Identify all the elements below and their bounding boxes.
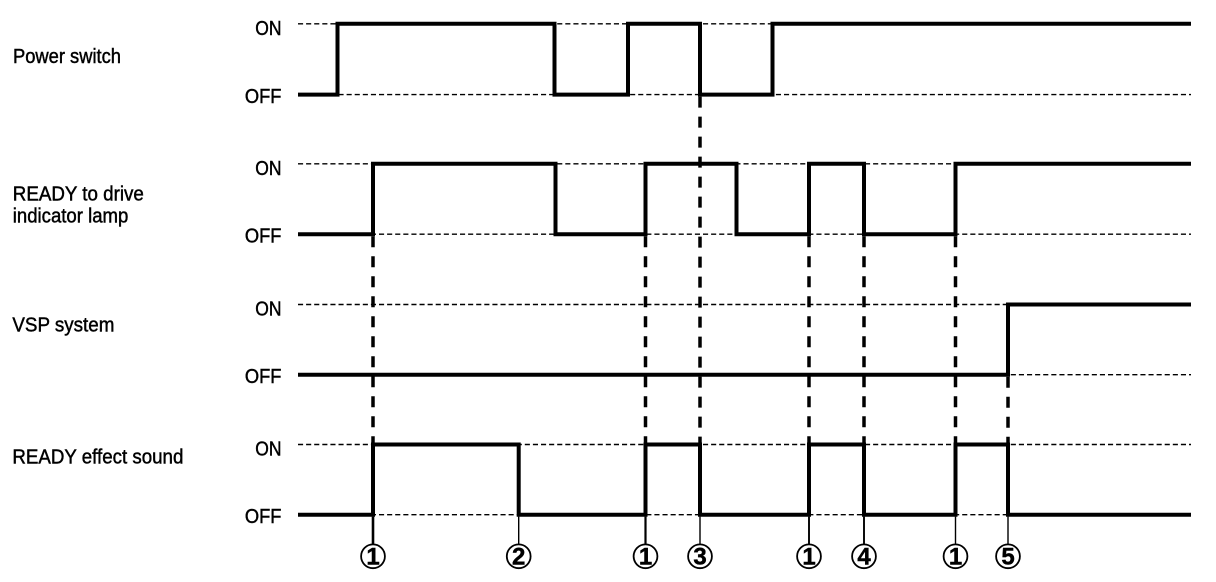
svg-text:VSP system: VSP system	[12, 315, 114, 337]
dashed guide ON level row4	[298, 444, 1191, 446]
wire leader to circle 2	[518, 517, 520, 544]
node marker 5	[996, 544, 1020, 571]
dashed timing line node 4	[862, 236, 866, 442]
node marker 2	[507, 544, 531, 571]
dashed timing line node 1a	[371, 236, 375, 442]
dashed guide OFF level row2	[298, 233, 1191, 235]
svg-text:ON: ON	[255, 299, 281, 321]
svg-text:ON: ON	[255, 439, 281, 461]
svg-text:OFF: OFF	[245, 225, 282, 247]
svg-text:READY to drive: READY to drive	[13, 184, 144, 206]
node marker 1 (first)	[361, 544, 385, 571]
svg-text:3: 3	[693, 544, 706, 571]
dashed guide ON level row3	[298, 304, 1191, 306]
svg-text:1: 1	[366, 544, 379, 571]
svg-text:2: 2	[512, 544, 525, 571]
wire leader to circle 3	[699, 517, 701, 544]
node marker 4	[852, 544, 876, 571]
wire leader to circle 5	[1007, 517, 1009, 544]
wire leader to circle 1b	[644, 517, 646, 544]
dashed timing line node 1d	[954, 236, 958, 442]
svg-text:4: 4	[857, 544, 871, 571]
dashed timing line node 3	[698, 97, 702, 443]
svg-text:1: 1	[949, 544, 962, 571]
dashed guide ON level row1	[298, 23, 1191, 25]
wire leader to circle 1d	[955, 517, 957, 544]
svg-text:ON: ON	[255, 18, 281, 40]
wire waveform VSP system	[298, 305, 1191, 375]
dashed timing line node 5	[1006, 377, 1010, 443]
dashed timing line node 1c	[807, 236, 811, 442]
svg-text:OFF: OFF	[245, 86, 282, 108]
dashed guide OFF level row3	[298, 374, 1191, 376]
dashed timing line node 1b	[644, 236, 648, 442]
svg-text:1: 1	[802, 544, 815, 571]
svg-text:OFF: OFF	[245, 366, 282, 388]
wire leader to circle 4	[863, 517, 865, 544]
svg-text:OFF: OFF	[245, 506, 282, 528]
svg-text:indicator lamp: indicator lamp	[13, 205, 129, 227]
node marker 1 (third)	[797, 544, 821, 571]
dashed guide OFF level row1	[298, 94, 1191, 96]
dashed guide ON level row2	[298, 163, 1191, 165]
svg-text:5: 5	[1001, 544, 1014, 571]
svg-text:1: 1	[639, 544, 652, 571]
node marker 1 (second)	[634, 544, 658, 571]
node marker 1 (fourth)	[944, 544, 968, 571]
wire leader to circle 1c	[808, 517, 810, 544]
svg-text:Power switch: Power switch	[13, 46, 121, 68]
node marker 3	[688, 544, 712, 571]
wire leader to circle 1a	[372, 517, 375, 544]
wire waveform Power switch	[298, 24, 1191, 95]
svg-text:READY effect sound: READY effect sound	[12, 447, 183, 469]
svg-text:ON: ON	[255, 158, 281, 180]
wire waveform READY indicator lamp	[298, 164, 1191, 234]
wire waveform READY effect sound	[298, 445, 1191, 515]
dashed guide OFF level row4	[298, 514, 1191, 516]
